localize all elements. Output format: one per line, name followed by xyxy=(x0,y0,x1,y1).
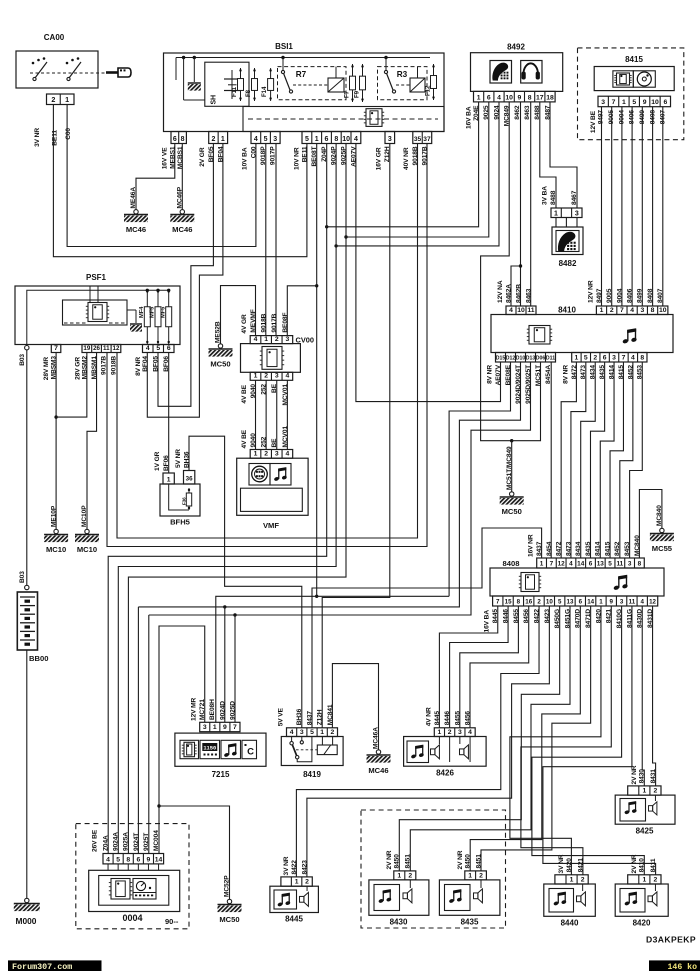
svg-text:2: 2 xyxy=(264,373,268,380)
svg-text:F12: F12 xyxy=(425,85,432,96)
svg-text:F11: F11 xyxy=(231,86,238,97)
size chip 146 ko xyxy=(649,960,700,971)
svg-text:BE: BE xyxy=(271,438,278,448)
svg-text:1: 1 xyxy=(320,729,324,736)
wire 8471D xyxy=(481,606,591,871)
BFH5 pin 1 xyxy=(163,473,174,484)
svg-text:7: 7 xyxy=(620,307,624,314)
svg-text:4: 4 xyxy=(146,345,150,352)
svg-text:40V NR: 40V NR xyxy=(403,147,410,170)
svg-text:6: 6 xyxy=(136,856,140,863)
ground MC46 B xyxy=(180,210,184,214)
wire 8456 xyxy=(470,606,529,728)
svg-text:8426: 8426 xyxy=(436,769,454,778)
wire 8411G xyxy=(543,606,656,875)
svg-text:13: 13 xyxy=(597,560,605,567)
connector 8482 pins 1,3 xyxy=(551,208,582,218)
wire MEVMF/ME52B xyxy=(221,286,256,344)
8426 speaker icon A xyxy=(431,745,440,759)
internal supply wire xyxy=(176,57,430,59)
BSI1 connector 10V NR pins 5,1,6,8,10,4 xyxy=(302,132,361,144)
fuse F7 xyxy=(352,64,354,102)
ground MC46 bottom xyxy=(376,750,380,754)
svg-text:MC10: MC10 xyxy=(77,545,97,554)
svg-text:9024P: 9024P xyxy=(331,146,338,165)
ground M000 xyxy=(25,898,29,902)
svg-text:6: 6 xyxy=(663,99,667,106)
svg-text:8430: 8430 xyxy=(639,769,646,784)
watermark forum307 xyxy=(8,960,102,971)
svg-text:8421: 8421 xyxy=(577,858,584,873)
wire MC721 / MC004 bridge xyxy=(159,626,205,854)
svg-text:1: 1 xyxy=(65,95,69,104)
ground MC10 A xyxy=(54,529,58,533)
8440 speaker icon xyxy=(577,892,586,906)
wire MCBS1 to ground xyxy=(181,144,183,210)
svg-text:16V NR: 16V NR xyxy=(528,534,535,557)
CD changer 8415 dashed box xyxy=(578,48,684,140)
wire 8470D xyxy=(470,606,580,871)
wire MBSM2 xyxy=(56,353,87,418)
svg-text:11: 11 xyxy=(629,598,636,605)
8410 pin row 8V NR D15,D12,D10,D13,D06,D11 xyxy=(496,353,556,363)
svg-text:2: 2 xyxy=(479,872,483,879)
fuse F8 xyxy=(254,68,256,101)
svg-text:11: 11 xyxy=(103,345,110,352)
svg-text:5: 5 xyxy=(632,99,636,106)
instrument cluster 7215 xyxy=(175,733,266,766)
svg-text:13: 13 xyxy=(567,598,574,605)
wire 8462 xyxy=(520,102,522,306)
svg-text:2: 2 xyxy=(51,95,55,104)
svg-text:MF5: MF5 xyxy=(150,306,156,318)
wire BF06 xyxy=(168,353,170,474)
internal ground xyxy=(193,58,195,83)
dashed box 0004 xyxy=(76,824,189,929)
ground MC10 B xyxy=(85,529,89,533)
svg-text:D10: D10 xyxy=(516,355,526,361)
svg-text:3: 3 xyxy=(300,729,304,736)
svg-text:9017B: 9017B xyxy=(271,313,278,332)
tweeter 8425 pins 1,2 xyxy=(628,786,661,795)
svg-text:16V VE: 16V VE xyxy=(162,147,169,169)
VMF note icon xyxy=(270,464,291,486)
7215 temperature icon xyxy=(242,740,257,758)
fuse F14 xyxy=(270,68,272,101)
wire 8437 xyxy=(312,528,542,728)
svg-text:8: 8 xyxy=(181,136,185,143)
svg-text:8: 8 xyxy=(651,307,655,314)
svg-text:5: 5 xyxy=(264,136,268,143)
fuse MF4 xyxy=(146,289,148,345)
svg-text:8450: 8450 xyxy=(394,854,401,869)
rear speaker 8440 xyxy=(544,884,596,916)
svg-text:6: 6 xyxy=(173,136,177,143)
svg-text:8419: 8419 xyxy=(303,770,321,779)
svg-text:BF05: BF05 xyxy=(153,356,160,372)
svg-text:3: 3 xyxy=(273,136,277,143)
svg-text:8482: 8482 xyxy=(559,259,577,268)
svg-text:VMF: VMF xyxy=(263,521,279,530)
svg-text:4: 4 xyxy=(254,336,258,343)
svg-text:1: 1 xyxy=(570,876,574,883)
svg-text:MC10: MC10 xyxy=(46,545,66,554)
wire 9024D xyxy=(138,362,520,607)
rear speaker 8440 pins 1,2 xyxy=(555,875,588,884)
svg-text:5: 5 xyxy=(608,560,612,567)
svg-text:10: 10 xyxy=(342,136,350,143)
BFH5 pin 36 xyxy=(184,471,195,485)
svg-text:8455: 8455 xyxy=(454,711,461,726)
8445 speaker icon xyxy=(300,892,309,906)
svg-text:1: 1 xyxy=(254,451,258,458)
8415 pin row 3,7,1,5,9,10,6 xyxy=(598,96,671,107)
svg-text:8463: 8463 xyxy=(524,105,531,120)
svg-text:BE11: BE11 xyxy=(52,130,59,146)
svg-text:MCBS1: MCBS1 xyxy=(177,146,184,169)
svg-text:36: 36 xyxy=(186,476,193,483)
svg-text:3V BA: 3V BA xyxy=(542,186,549,205)
fuse F36 xyxy=(188,488,190,510)
svg-text:MF4: MF4 xyxy=(139,306,145,318)
svg-text:B03: B03 xyxy=(19,571,26,583)
svg-text:MC55: MC55 xyxy=(652,544,673,553)
svg-text:5: 5 xyxy=(116,856,120,863)
svg-text:8430: 8430 xyxy=(390,918,408,927)
svg-text:4: 4 xyxy=(641,598,645,605)
wire 8423 xyxy=(307,606,549,877)
8435 speaker icon xyxy=(474,889,483,903)
wire 8454A xyxy=(550,362,552,558)
svg-text:2: 2 xyxy=(211,136,215,143)
svg-text:9025D: 9025D xyxy=(229,701,236,720)
svg-text:90--: 90-- xyxy=(165,917,179,926)
svg-text:7: 7 xyxy=(54,345,58,352)
svg-text:8408: 8408 xyxy=(503,559,520,568)
wire 8455 xyxy=(460,606,519,728)
svg-text:4V BE: 4V BE xyxy=(241,384,248,403)
wire 9024D branch to 7215 xyxy=(224,607,226,722)
8410 note icon xyxy=(622,328,637,344)
svg-text:12V BE: 12V BE xyxy=(590,110,597,133)
svg-text:26: 26 xyxy=(93,345,100,352)
internal connector strip xyxy=(243,107,444,132)
front speaker 8445 xyxy=(270,886,319,912)
VMF connector icon xyxy=(249,464,270,486)
wire BH36 xyxy=(189,436,302,728)
svg-text:3: 3 xyxy=(601,99,605,106)
svg-text:8462B: 8462B xyxy=(515,284,522,303)
wire 9025D branch to 7215 xyxy=(234,615,236,722)
svg-text:5: 5 xyxy=(305,136,309,143)
svg-text:8492: 8492 xyxy=(507,43,525,52)
svg-text:ME10P: ME10P xyxy=(50,505,57,527)
BSI1 connector 16V GR pin 3 xyxy=(385,132,395,144)
svg-text:F7: F7 xyxy=(344,90,351,98)
chip icon 8415 xyxy=(613,71,633,87)
svg-text:D15: D15 xyxy=(496,355,506,361)
svg-text:SH: SH xyxy=(211,95,218,105)
svg-text:10V BA: 10V BA xyxy=(242,147,249,170)
svg-text:8440: 8440 xyxy=(561,919,579,928)
svg-text:12V NR: 12V NR xyxy=(587,280,594,303)
svg-text:1: 1 xyxy=(600,307,604,314)
wire MC841 xyxy=(332,664,378,750)
svg-text:F14: F14 xyxy=(261,86,268,97)
svg-text:2V GR: 2V GR xyxy=(199,147,206,167)
svg-text:MC840: MC840 xyxy=(656,505,663,526)
wire BE08T xyxy=(316,144,318,597)
svg-text:8: 8 xyxy=(334,136,338,143)
wire BE08E xyxy=(449,362,510,596)
svg-text:2: 2 xyxy=(581,876,585,883)
VMF pin row 1,2,3,4 xyxy=(250,450,292,459)
8410 pin row 8V NR 1,5,2,6,3,7,4,8 xyxy=(572,353,647,363)
svg-text:8407: 8407 xyxy=(657,288,664,303)
wire BE11 CA00 to BSI1 xyxy=(53,105,307,257)
svg-text:8415: 8415 xyxy=(625,55,643,64)
wire BF04 xyxy=(147,144,223,418)
svg-text:1: 1 xyxy=(599,598,603,605)
svg-text:2: 2 xyxy=(264,451,268,458)
wire 9017P to CV00 xyxy=(275,144,277,336)
svg-text:1: 1 xyxy=(622,99,626,106)
0004 pin row 4,5,8,6,9,14 xyxy=(103,854,164,864)
svg-text:MC004: MC004 xyxy=(153,830,160,851)
svg-text:12: 12 xyxy=(113,345,120,352)
wire BF05 xyxy=(158,144,213,407)
fuse supply bus / B03 rail xyxy=(27,290,169,344)
svg-text:8: 8 xyxy=(528,94,532,101)
svg-text:CA00: CA00 xyxy=(44,33,65,42)
svg-text:1: 1 xyxy=(642,876,646,883)
svg-text:2V NR: 2V NR xyxy=(386,850,393,869)
svg-text:4: 4 xyxy=(285,451,289,458)
wire 8421 xyxy=(521,606,611,875)
svg-text:D06: D06 xyxy=(536,355,546,361)
svg-text:R3: R3 xyxy=(397,70,408,79)
svg-text:3: 3 xyxy=(458,729,462,736)
svg-text:8: 8 xyxy=(640,354,644,361)
svg-text:8437: 8437 xyxy=(536,541,543,556)
svg-text:BF06: BF06 xyxy=(163,455,170,471)
8426 speaker icon B xyxy=(460,745,469,759)
svg-text:1: 1 xyxy=(468,872,472,879)
svg-text:9024D: 9024D xyxy=(219,701,226,720)
svg-text:2: 2 xyxy=(654,788,658,795)
svg-text:9: 9 xyxy=(518,94,522,101)
svg-text:D11: D11 xyxy=(546,355,555,361)
8410 chip icon xyxy=(529,326,550,345)
svg-text:8410: 8410 xyxy=(558,306,576,315)
svg-text:4: 4 xyxy=(509,307,513,314)
BSI1 connector 16V VE pins 6,8 xyxy=(171,132,186,144)
svg-text:BH36: BH36 xyxy=(296,708,303,725)
svg-text:3: 3 xyxy=(575,211,579,218)
svg-text:C00: C00 xyxy=(65,128,72,140)
svg-text:8462: 8462 xyxy=(514,105,521,120)
svg-text:Z04A: Z04A xyxy=(102,835,109,851)
svg-text:8445: 8445 xyxy=(285,915,303,924)
relay R3 dashed box xyxy=(378,67,428,100)
svg-text:8462A: 8462A xyxy=(505,284,512,303)
fuse holder BFH5 xyxy=(160,484,200,516)
wire 9018B xyxy=(117,144,418,539)
svg-text:4: 4 xyxy=(630,307,634,314)
svg-text:8410: 8410 xyxy=(639,858,646,873)
relay R7 contact xyxy=(282,58,284,71)
svg-text:28V MR: 28V MR xyxy=(43,357,50,381)
svg-text:1V GR: 1V GR xyxy=(154,451,161,471)
8410 pin row 12V NR 1,2,7,4,3,8,10 xyxy=(596,306,667,315)
tweeter 8435 pins 1,2 xyxy=(465,871,487,880)
key symbol xyxy=(106,68,131,77)
svg-text:3: 3 xyxy=(640,307,644,314)
svg-text:2: 2 xyxy=(654,876,658,883)
svg-text:2: 2 xyxy=(448,729,452,736)
microcontroller icon xyxy=(366,109,382,127)
svg-text:Forum307.com: Forum307.com xyxy=(12,962,72,971)
svg-text:7215: 7215 xyxy=(212,770,230,779)
svg-text:9017B: 9017B xyxy=(101,356,108,375)
svg-text:10V NR: 10V NR xyxy=(294,147,301,170)
node B03 battery end xyxy=(25,585,29,589)
relay R7 dashed box xyxy=(278,67,347,100)
svg-text:12: 12 xyxy=(558,560,566,567)
svg-text:1: 1 xyxy=(295,879,299,886)
svg-text:8435: 8435 xyxy=(461,918,479,927)
svg-text:8454: 8454 xyxy=(546,541,553,556)
svg-text:3V NR: 3V NR xyxy=(34,128,41,147)
svg-text:9: 9 xyxy=(223,724,227,731)
VMF inner display xyxy=(241,488,303,511)
svg-text:BFH5: BFH5 xyxy=(170,518,191,527)
multifunction display VMF xyxy=(237,458,308,515)
relay R7 coil xyxy=(328,78,344,92)
battery BB00 xyxy=(17,592,37,650)
wire 8487 xyxy=(550,102,577,208)
PSF1 pins 4,5,6 xyxy=(143,345,175,353)
svg-text:12: 12 xyxy=(649,598,656,605)
tweeter 8430 xyxy=(369,880,429,915)
fuse MF6 xyxy=(168,289,170,345)
svg-text:2: 2 xyxy=(275,336,279,343)
cluster gauge icon xyxy=(133,879,156,900)
phone icon xyxy=(490,61,512,84)
stub wires into 8482 xyxy=(555,218,557,228)
svg-text:MC50: MC50 xyxy=(502,507,522,516)
svg-text:1: 1 xyxy=(264,336,268,343)
8426 pin row 1,2,3,4 xyxy=(434,728,475,737)
svg-text:3: 3 xyxy=(620,598,624,605)
svg-text:MC46A: MC46A xyxy=(373,727,380,749)
svg-text:MC46: MC46 xyxy=(172,225,192,234)
PSF1 chip box xyxy=(63,300,128,325)
wire 9025P xyxy=(128,144,346,854)
CV00 bottom pin row 1,2,3,4 xyxy=(250,372,292,380)
svg-text:D13: D13 xyxy=(526,355,536,361)
svg-text:8425: 8425 xyxy=(636,827,654,836)
svg-text:2: 2 xyxy=(593,354,597,361)
svg-text:8423: 8423 xyxy=(301,860,308,875)
svg-text:F36: F36 xyxy=(182,497,187,505)
svg-text:4: 4 xyxy=(631,354,635,361)
svg-text:9024T: 9024T xyxy=(133,833,140,851)
7215 note icon xyxy=(221,740,241,758)
8408 top pin row 1,7,12,4,14,6,13,5,11,3,8 xyxy=(537,558,645,568)
svg-text:9: 9 xyxy=(643,99,647,106)
wire Z12H xyxy=(322,144,390,728)
fuse F12 xyxy=(433,64,435,100)
svg-text:1: 1 xyxy=(477,94,481,101)
svg-text:6: 6 xyxy=(589,560,593,567)
svg-text:8431: 8431 xyxy=(650,769,657,784)
wire 8431D xyxy=(653,606,656,786)
svg-text:8450: 8450 xyxy=(465,854,472,869)
svg-text:C: C xyxy=(247,747,254,758)
svg-text:6: 6 xyxy=(603,354,607,361)
svg-text:12V MR: 12V MR xyxy=(191,697,198,721)
svg-text:4V GR: 4V GR xyxy=(241,314,248,334)
svg-text:1: 1 xyxy=(397,872,401,879)
svg-text:2V NR: 2V NR xyxy=(631,854,638,873)
svg-text:1: 1 xyxy=(213,724,217,731)
8419 pin row 4,3,5,1,2 xyxy=(287,728,338,737)
svg-text:4: 4 xyxy=(569,560,573,567)
svg-text:18: 18 xyxy=(546,94,554,101)
svg-text:4: 4 xyxy=(285,373,289,380)
svg-text:10: 10 xyxy=(505,94,513,101)
svg-text:D3AKPEKP: D3AKPEKP xyxy=(646,935,696,945)
svg-text:3V NR: 3V NR xyxy=(283,856,290,875)
svg-text:F8: F8 xyxy=(245,89,252,97)
svg-text:B03: B03 xyxy=(19,354,26,366)
8419 relay coil xyxy=(317,745,337,755)
svg-text:BB00: BB00 xyxy=(29,654,48,663)
wires 8415 to 8410 xyxy=(601,107,603,306)
8419 relay contact xyxy=(291,737,293,742)
wire 8410G xyxy=(532,606,644,875)
svg-text:10: 10 xyxy=(517,307,525,314)
svg-text:7: 7 xyxy=(622,354,626,361)
svg-text:37: 37 xyxy=(423,136,431,143)
svg-text:8451: 8451 xyxy=(475,854,482,869)
svg-text:8456: 8456 xyxy=(464,711,471,726)
8420 speaker icon xyxy=(648,892,657,906)
pin stubs into 0004 xyxy=(107,864,109,870)
wire 8462A branch xyxy=(511,266,521,306)
svg-text:MC52P: MC52P xyxy=(224,875,231,897)
svg-text:252: 252 xyxy=(261,436,268,447)
svg-text:7: 7 xyxy=(496,598,500,605)
wire 9018P to CV00 xyxy=(265,144,267,336)
svg-text:8497: 8497 xyxy=(596,288,603,303)
svg-text:F9: F9 xyxy=(354,90,361,98)
svg-text:9018B: 9018B xyxy=(261,313,268,332)
svg-text:BF04: BF04 xyxy=(142,356,149,372)
wire MEBS1 to ground xyxy=(136,144,175,211)
wire Z04E xyxy=(327,102,479,227)
PSF1 pin 7 xyxy=(51,345,61,353)
svg-text:12V NA: 12V NA xyxy=(497,280,504,303)
svg-text:2: 2 xyxy=(305,879,309,886)
svg-text:16V BA: 16V BA xyxy=(484,610,491,633)
wire 8430D xyxy=(642,606,644,786)
svg-text:9040: 9040 xyxy=(250,433,257,448)
svg-text:2: 2 xyxy=(331,729,335,736)
svg-text:4: 4 xyxy=(106,856,110,863)
svg-text:5V NR: 5V NR xyxy=(175,449,182,468)
